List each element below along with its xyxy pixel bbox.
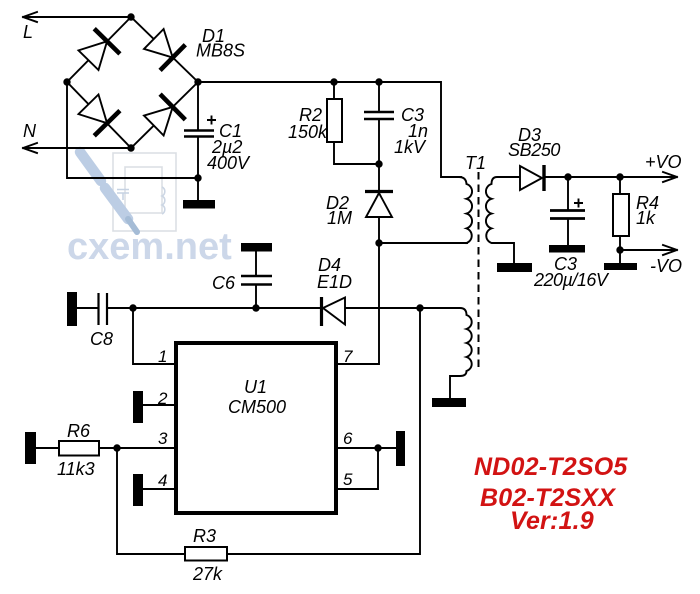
capacitor C6 with top bar [241,243,272,308]
node pin6/pin5 junction [374,444,381,451]
wire D2 node down to pin 7 [338,243,379,364]
svg-text:C8: C8 [90,329,113,349]
resistor R2 [327,82,379,164]
svg-text:L: L [23,22,33,42]
diode D1 bridge bottom-right [141,94,185,138]
transformer T1 aux winding [420,308,472,398]
svg-text:CM500: CM500 [228,397,286,417]
node R2/C3 bottom junction [375,160,382,167]
node C6 junction [252,304,259,311]
node bridge bottom junction [127,144,134,151]
svg-text:6: 6 [343,429,353,448]
svg-text:11k3: 11k3 [57,459,95,479]
node D2 bottom junction [375,239,382,246]
wire top rail to transformer [198,82,461,177]
node C8 junction [129,304,136,311]
wire D2 node to primary bottom [379,242,467,244]
svg-text:1k: 1k [636,208,656,228]
diode D1 bridge top-right [141,26,185,70]
ground under C1 [183,200,215,209]
svg-text:cxem.net: cxem.net [67,226,232,268]
wire -VO output line with arrow [620,245,677,255]
resistor R3 feedback [117,308,420,561]
svg-text:-VO: -VO [650,256,682,276]
node pin3/R3 junction [113,444,120,451]
capacitor C8 with terminal bar [67,292,133,326]
wire +VO output line with arrow [546,172,677,182]
diode D1 bridge top-left [76,29,120,73]
svg-text:T1: T1 [465,153,486,173]
op-amp U1 box [176,343,336,513]
node R2 top [330,78,337,85]
svg-text:27k: 27k [192,564,223,584]
watermark cxem.net stamp icon (decorative) [67,152,232,268]
ground under aux winding [432,398,466,407]
svg-text:Ver:1.9: Ver:1.9 [510,507,594,535]
svg-text:1: 1 [158,347,167,366]
wire L input line with arrow [23,12,131,22]
svg-text:U1: U1 [244,377,267,397]
capacitor C3 1n [364,82,394,190]
diode D1 bridge bottom-left [76,92,120,136]
pin 2 wire and terminal bar [133,391,174,423]
svg-text:4: 4 [158,471,167,490]
node R4 top [616,173,623,180]
svg-text:+VO: +VO [645,152,682,172]
capacitor C1 [184,82,216,200]
svg-text:5: 5 [343,470,353,489]
svg-text:ND02-T2SO5: ND02-T2SO5 [474,453,628,481]
ground bar under C3 out [549,245,585,253]
diode D3 [520,165,544,191]
wire feedback rail [133,307,320,309]
svg-text:150k: 150k [288,122,328,142]
svg-text:7: 7 [343,347,353,366]
node R4 bottom junction [616,246,623,253]
resistor R4 [613,177,629,263]
svg-text:N: N [23,121,37,141]
svg-text:220µ/16V: 220µ/16V [533,270,610,290]
svg-text:400V: 400V [207,153,251,173]
svg-text:SB250: SB250 [508,140,560,160]
pin 4 wire and terminal bar [133,474,174,506]
resistor R6 with terminal bar, pin 3 wire [25,432,174,464]
ground bar under R4 [604,263,637,270]
diode D4 [322,297,346,326]
wire bridge left to bottom rail [67,82,198,178]
capacitor C3 220u [550,177,585,245]
svg-text:1kV: 1kV [394,137,427,157]
svg-text:3: 3 [158,429,168,448]
transformer T1 secondary winding [486,177,520,263]
transformer core dashed line [478,172,480,372]
wire pin1 from feedback rail [133,308,174,364]
svg-text:MB8S: MB8S [196,41,245,61]
svg-text:E1D: E1D [317,272,352,292]
diode D2 [365,192,393,244]
wire bridge diamond [67,17,198,148]
ground under secondary [497,263,532,272]
svg-text:1M: 1M [327,208,352,228]
node bridge right junction [194,78,201,85]
pin 5 wire [338,448,378,489]
node bridge left junction [63,78,70,85]
svg-text:R3: R3 [193,526,216,546]
node C3 top [375,78,382,85]
node bridge top junction [127,13,134,20]
wire N input line with arrow [23,143,131,153]
svg-text:C6: C6 [212,273,236,293]
node C3 out top [564,173,571,180]
transformer T1 primary winding [459,177,472,243]
pin 6 wire and terminal bar [338,431,405,466]
node C1 bottom junction [194,174,201,181]
svg-text:R6: R6 [67,421,91,441]
node aux junction [416,304,423,311]
